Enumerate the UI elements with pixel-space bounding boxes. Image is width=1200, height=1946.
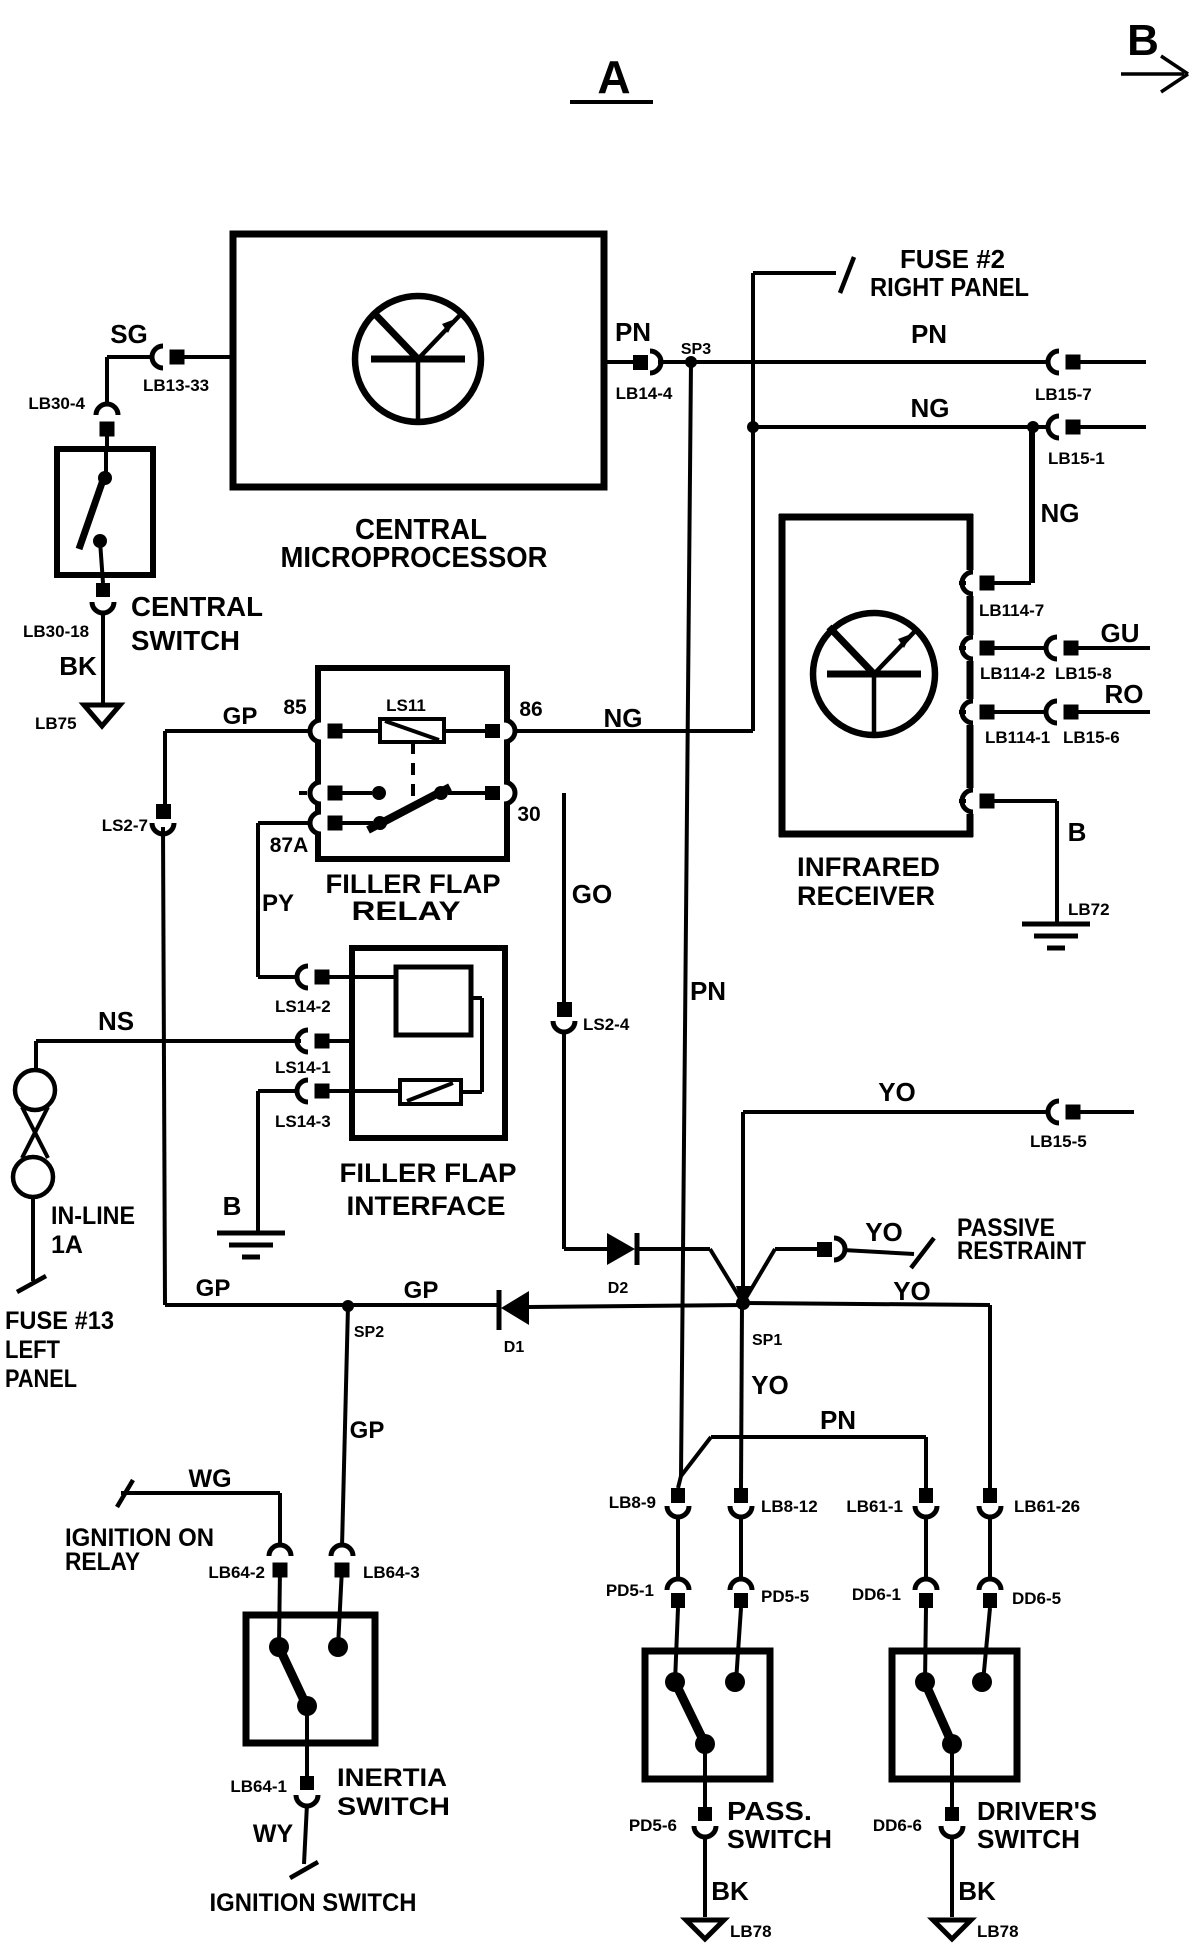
svg-text:CENTRAL: CENTRAL bbox=[131, 591, 263, 622]
svg-text:A: A bbox=[597, 51, 630, 103]
svg-text:DD6-5: DD6-5 bbox=[1012, 1589, 1061, 1608]
svg-text:NG: NG bbox=[911, 393, 950, 423]
svg-text:FUSE #13: FUSE #13 bbox=[5, 1307, 114, 1335]
svg-text:INTERFACE: INTERFACE bbox=[347, 1191, 506, 1221]
svg-text:SG: SG bbox=[110, 319, 148, 349]
svg-text:LS14-1: LS14-1 bbox=[275, 1058, 331, 1077]
svg-text:LB15-6: LB15-6 bbox=[1063, 728, 1120, 747]
svg-text:LB13-33: LB13-33 bbox=[143, 376, 209, 395]
svg-text:LB78: LB78 bbox=[730, 1922, 772, 1941]
svg-text:GP: GP bbox=[196, 1275, 231, 1302]
svg-text:LB64-1: LB64-1 bbox=[230, 1777, 287, 1796]
svg-text:PN: PN bbox=[615, 317, 651, 347]
svg-text:PANEL: PANEL bbox=[5, 1365, 77, 1393]
svg-text:NG: NG bbox=[1041, 498, 1080, 528]
svg-text:PN: PN bbox=[820, 1405, 856, 1435]
svg-text:30: 30 bbox=[517, 803, 540, 826]
svg-text:LB64-3: LB64-3 bbox=[363, 1563, 420, 1582]
svg-text:GO: GO bbox=[572, 879, 612, 909]
svg-text:LB15-5: LB15-5 bbox=[1030, 1132, 1087, 1151]
svg-text:LS11: LS11 bbox=[386, 696, 426, 715]
svg-text:86: 86 bbox=[519, 698, 542, 721]
svg-text:LB78: LB78 bbox=[977, 1922, 1019, 1941]
svg-text:MICROPROCESSOR: MICROPROCESSOR bbox=[281, 542, 548, 574]
svg-text:DRIVER'S: DRIVER'S bbox=[977, 1796, 1097, 1826]
svg-text:RECEIVER: RECEIVER bbox=[797, 881, 935, 911]
svg-text:PN: PN bbox=[911, 319, 947, 349]
svg-text:PASS.: PASS. bbox=[727, 1796, 812, 1826]
svg-text:BK: BK bbox=[958, 1876, 996, 1906]
svg-text:INFRARED: INFRARED bbox=[797, 852, 940, 882]
svg-text:NS: NS bbox=[98, 1006, 134, 1036]
svg-text:YO: YO bbox=[878, 1077, 916, 1107]
svg-text:LB114-7: LB114-7 bbox=[979, 601, 1044, 620]
svg-text:PY: PY bbox=[262, 890, 294, 917]
svg-text:LB14-4: LB14-4 bbox=[616, 384, 673, 403]
svg-text:LB15-7: LB15-7 bbox=[1035, 385, 1092, 404]
svg-text:LS14-3: LS14-3 bbox=[275, 1112, 331, 1131]
svg-text:PN: PN bbox=[690, 976, 726, 1006]
svg-text:SWITCH: SWITCH bbox=[977, 1824, 1080, 1854]
svg-text:YO: YO bbox=[893, 1276, 931, 1306]
svg-text:LB61-26: LB61-26 bbox=[1014, 1497, 1080, 1516]
svg-text:BK: BK bbox=[59, 651, 97, 681]
svg-text:B: B bbox=[223, 1191, 242, 1221]
svg-text:LB114-2: LB114-2 bbox=[980, 664, 1045, 683]
svg-text:RELAY: RELAY bbox=[65, 1548, 140, 1576]
svg-text:1A: 1A bbox=[51, 1231, 83, 1259]
svg-text:LB15-8: LB15-8 bbox=[1055, 664, 1112, 683]
svg-text:RIGHT PANEL: RIGHT PANEL bbox=[870, 272, 1029, 302]
svg-text:GP: GP bbox=[404, 1277, 439, 1304]
svg-text:GP: GP bbox=[350, 1417, 385, 1444]
svg-text:LB64-2: LB64-2 bbox=[208, 1563, 265, 1582]
svg-text:FILLER FLAP: FILLER FLAP bbox=[326, 869, 501, 899]
svg-text:WG: WG bbox=[188, 1465, 231, 1493]
svg-text:INERTIA: INERTIA bbox=[337, 1764, 447, 1792]
svg-text:BK: BK bbox=[711, 1876, 749, 1906]
svg-text:PD5-5: PD5-5 bbox=[761, 1587, 809, 1606]
svg-text:FILLER FLAP: FILLER FLAP bbox=[340, 1158, 517, 1188]
svg-text:LB72: LB72 bbox=[1068, 900, 1110, 919]
svg-text:YO: YO bbox=[751, 1370, 789, 1400]
svg-text:WY: WY bbox=[253, 1820, 294, 1848]
svg-text:RESTRAINT: RESTRAINT bbox=[957, 1237, 1086, 1265]
svg-text:B: B bbox=[1127, 16, 1159, 65]
svg-text:DD6-6: DD6-6 bbox=[873, 1816, 922, 1835]
svg-text:87A: 87A bbox=[270, 834, 309, 857]
svg-text:GU: GU bbox=[1101, 618, 1140, 648]
svg-text:NG: NG bbox=[604, 703, 643, 733]
svg-text:SP3: SP3 bbox=[681, 341, 711, 358]
svg-text:FUSE #2: FUSE #2 bbox=[900, 244, 1005, 274]
svg-text:LB8-9: LB8-9 bbox=[609, 1493, 656, 1512]
svg-text:D1: D1 bbox=[504, 1339, 525, 1356]
svg-text:PD5-1: PD5-1 bbox=[606, 1581, 654, 1600]
svg-text:D2: D2 bbox=[608, 1280, 629, 1297]
svg-text:LEFT: LEFT bbox=[5, 1336, 60, 1364]
svg-text:LB30-18: LB30-18 bbox=[23, 622, 89, 641]
svg-text:LS2-4: LS2-4 bbox=[583, 1015, 630, 1034]
svg-text:PD5-6: PD5-6 bbox=[629, 1816, 677, 1835]
svg-text:SWITCH: SWITCH bbox=[131, 625, 240, 656]
svg-text:B: B bbox=[1068, 817, 1087, 847]
svg-text:LS14-2: LS14-2 bbox=[275, 997, 331, 1016]
svg-text:IN-LINE: IN-LINE bbox=[51, 1202, 135, 1230]
svg-text:85: 85 bbox=[283, 696, 307, 719]
svg-text:SWITCH: SWITCH bbox=[727, 1824, 832, 1854]
svg-text:SWITCH: SWITCH bbox=[337, 1793, 450, 1821]
svg-text:LB114-1: LB114-1 bbox=[985, 728, 1050, 747]
svg-text:YO: YO bbox=[865, 1217, 903, 1247]
svg-text:SP1: SP1 bbox=[752, 1332, 782, 1349]
svg-text:LB15-1: LB15-1 bbox=[1048, 449, 1105, 468]
svg-text:LB61-1: LB61-1 bbox=[846, 1497, 903, 1516]
svg-text:IGNITION SWITCH: IGNITION SWITCH bbox=[210, 1889, 417, 1917]
svg-text:RO: RO bbox=[1105, 679, 1144, 709]
svg-text:LB75: LB75 bbox=[35, 714, 77, 733]
svg-text:DD6-1: DD6-1 bbox=[852, 1585, 901, 1604]
svg-text:LB8-12: LB8-12 bbox=[761, 1497, 818, 1516]
svg-text:SP2: SP2 bbox=[354, 1324, 384, 1341]
svg-text:LS2-7: LS2-7 bbox=[102, 816, 148, 835]
svg-text:LB30-4: LB30-4 bbox=[28, 394, 85, 413]
svg-text:GP: GP bbox=[223, 703, 258, 730]
svg-text:RELAY: RELAY bbox=[352, 896, 461, 926]
